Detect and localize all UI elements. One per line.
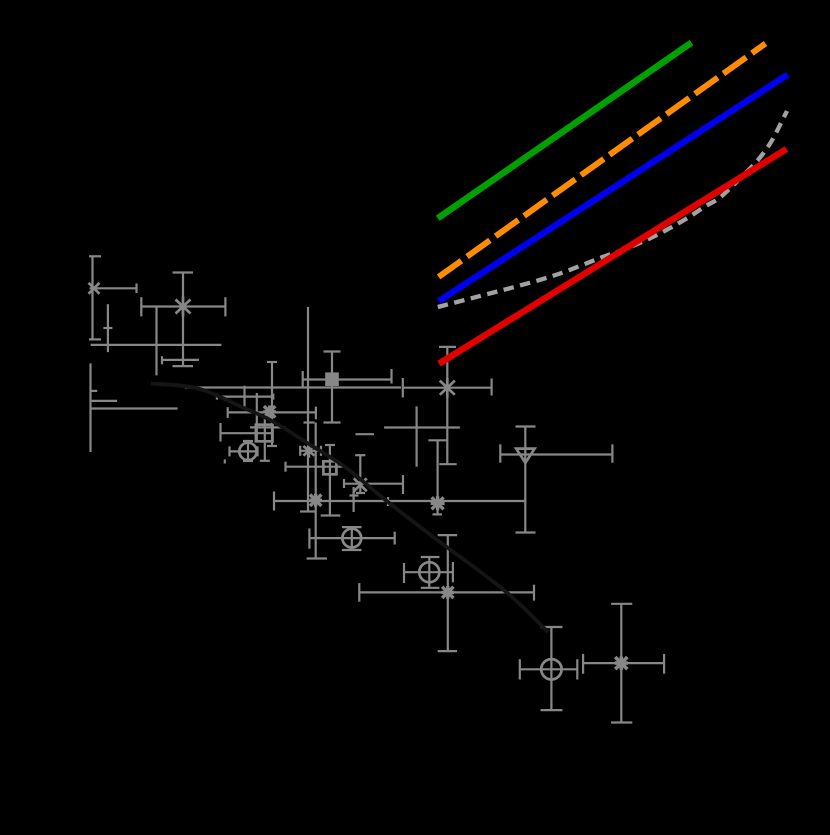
errorbars small plus (107.9,328) (103, 304, 112, 352)
marker circle (248,451.4) (239, 443, 256, 460)
small point (353.6,495.5) (350, 487, 359, 512)
marker triangle down (525.3,454.5) (516, 449, 534, 463)
errorbars open square (329.9,467.8) (286, 445, 344, 516)
errorbar short bar y=360 (162, 356, 199, 364)
errorbars star8 (447.8,592.4) (359, 535, 534, 651)
errorbars star8 (269.6,411.8) (228, 362, 316, 446)
marker star6 (183,306.5) (176, 297, 191, 317)
blue line (439, 75, 788, 302)
marker open square (329.9,467.8) (323, 461, 336, 474)
red line (439, 149, 787, 364)
errorbars filled square (332,379.2) (303, 352, 393, 423)
errorbars x-marker (360.3,484.8) (344, 455, 403, 494)
marker open square (264.2,433) (256, 425, 273, 442)
marker star8 (269.6,411.8) (263, 406, 276, 419)
errorbars circle-plus (248,451.4) (230, 441, 258, 461)
marker x (360.3,484.8) (354, 478, 367, 491)
marker star8 (447.8,592.4) (442, 586, 455, 599)
errorbars hidden point (156.5,344.9) (91, 307, 222, 375)
long bar y=387.5 (185, 386, 401, 388)
errorbars star6 (183,306.5) (141, 273, 225, 367)
errorbars P1 x-marker (89, 256, 137, 339)
errorbars star8 (437.2,503.3) (388, 440, 447, 514)
dark trend line (151, 384, 548, 633)
marker star8 (621.3,663.1) (615, 657, 628, 670)
marker star8 (437.2,503.3) (431, 496, 445, 510)
marker x (94,288.3) (89, 283, 100, 294)
marker circle (551.4,669.3) (541, 659, 561, 679)
errorbars star6 (308.9,450.8) tall vertical (300, 307, 321, 512)
errorbars x-marker (447.5,387) (356, 347, 492, 467)
marker star8 (315.7,500.2) (309, 494, 322, 507)
marker circle (351.8,538.1) (342, 529, 361, 548)
marker circle (429.3,572.2) (419, 562, 439, 582)
errorbars circle-plus (429.3,572.2) (404, 557, 453, 588)
errorbars triangle (525.3,454.5) (500, 427, 612, 533)
vertical x=256 (256, 393, 258, 441)
errorbars point Q (244.5,396.6) (217, 386, 273, 409)
errorbars star8 (315.7,500.2) (274, 423, 525, 559)
errorbars star8 (621.3,663.1) (583, 604, 664, 723)
errorbars open square cross (264.2,433) (221, 419, 286, 461)
left edge point bars (90, 363, 225, 463)
marker star6 (308.9,450.8) (303, 444, 314, 458)
errorbars circle-plus (351.8,538.1) (309, 527, 394, 550)
marker x (447.5,387) (440, 378, 455, 398)
gray dashed model curve (438, 111, 787, 307)
green line (438, 43, 692, 219)
markers (89, 283, 628, 680)
orange dashed line (439, 44, 766, 277)
errorbars circle-plus (551.4,669.3) (520, 627, 578, 710)
marker filled square (332,379.2) (325, 372, 339, 386)
